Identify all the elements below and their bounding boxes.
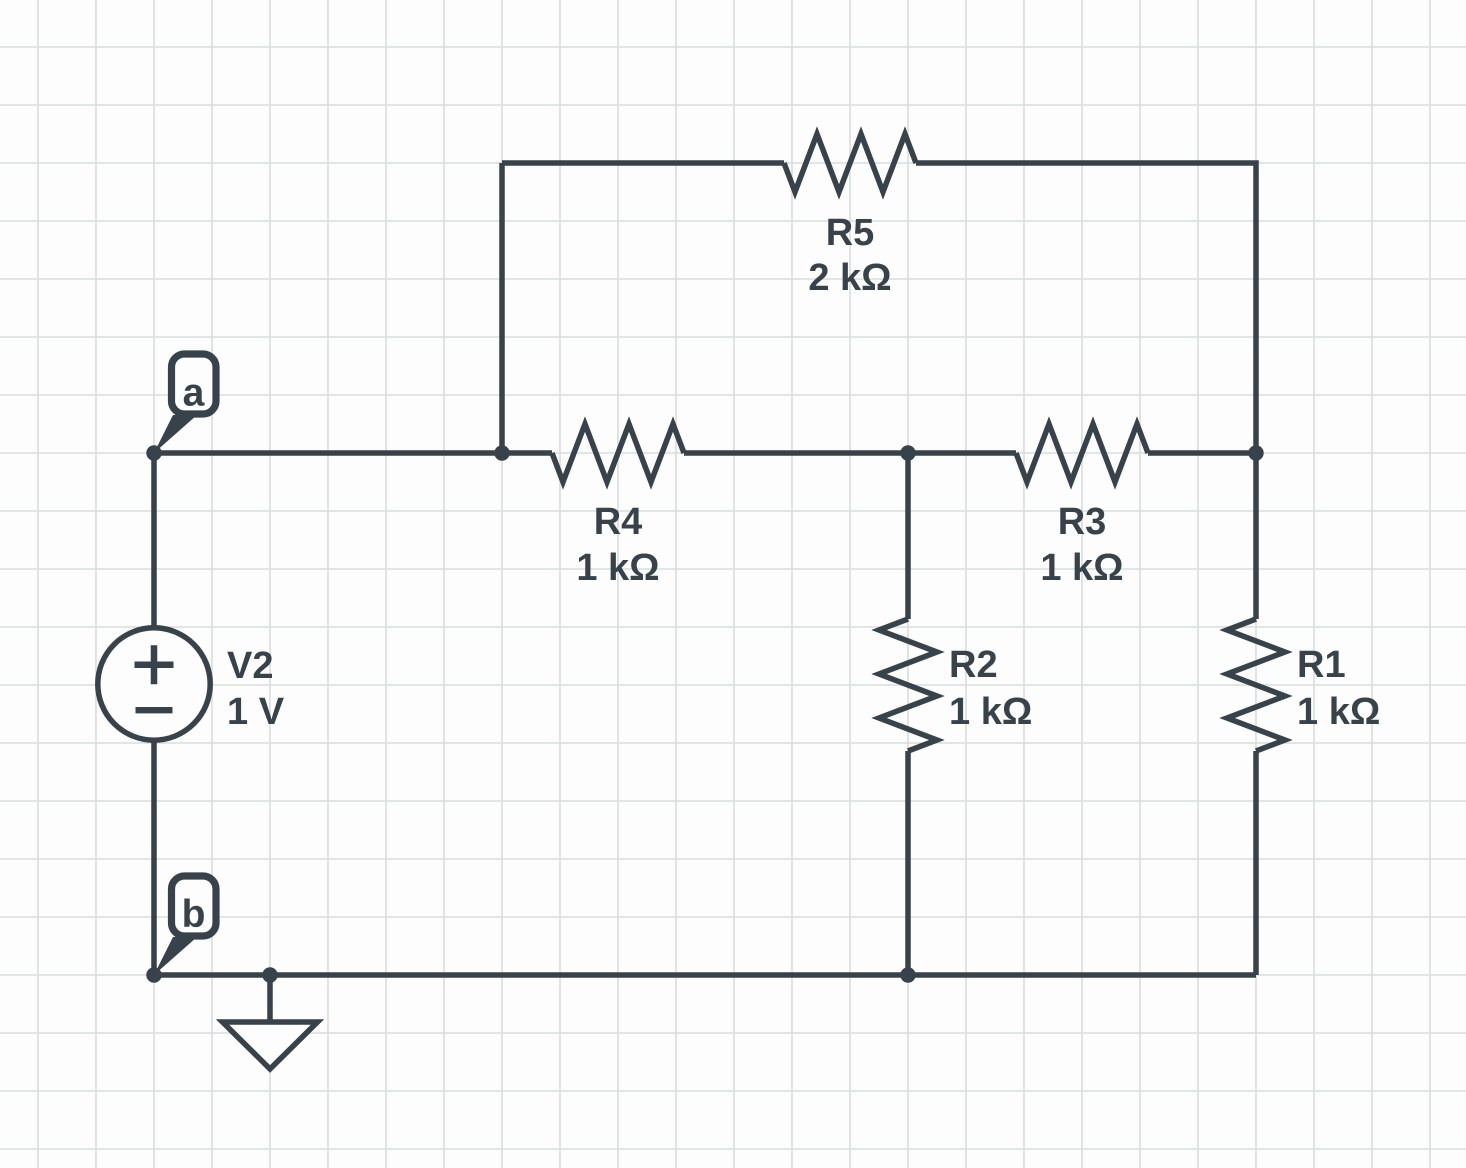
svg-text:2 kΩ: 2 kΩ [808,257,891,299]
svg-text:a: a [183,372,205,415]
wire: R3 right terminal to right junction [1148,450,1256,456]
wire: R2 lower lead [905,751,911,975]
wire: bottom rail node b to bottom-right corner [154,972,1256,978]
resistor R3 [1016,424,1148,482]
wire: R4 right terminal to middle junction [684,450,908,456]
junction: node b [146,967,161,982]
wire: node a to R4 left terminal [154,450,552,456]
svg-text:R3: R3 [1058,501,1107,543]
svg-text:R2: R2 [949,644,998,686]
resistor R5 [784,134,916,192]
junction: R2 bottom [900,967,915,982]
svg-text:R5: R5 [826,212,875,254]
svg-text:V2: V2 [227,645,273,687]
svg-text:R4: R4 [594,501,643,543]
resistor R1 [1227,619,1285,751]
svg-text:1 kΩ: 1 kΩ [576,547,659,589]
junction: top branch tap [494,445,509,460]
svg-text:1 kΩ: 1 kΩ [1297,691,1380,733]
wire: top branch left vertical (junction up) [499,163,505,453]
voltage source V2 [98,628,210,740]
wire: R1 lower lead [1253,751,1259,975]
svg-text:1 kΩ: 1 kΩ [1040,547,1123,589]
wire: top branch left horizontal to R5 [502,160,784,166]
svg-text:1 kΩ: 1 kΩ [949,691,1032,733]
node label a [154,354,216,453]
wire: middle junction to R3 left terminal [908,450,1016,456]
svg-text:R1: R1 [1297,644,1346,686]
wire: R2 upper lead [905,453,911,619]
resistor R2 [879,619,937,751]
node label b [154,876,216,975]
junction: node a [146,445,161,460]
junction: ground tap [262,967,277,982]
wire: node a down to V2 plus terminal [151,453,157,628]
wire: R5 right terminal to top-right corner and down [916,163,1256,453]
svg-text:b: b [182,893,206,936]
svg-text:1 V: 1 V [227,691,285,733]
resistor R4 [552,424,684,482]
junction: right (R1 top) [1248,445,1263,460]
wire: R1 upper lead [1253,453,1259,619]
wire: V2 minus terminal down to node b [151,740,157,975]
ground symbol [223,975,318,1069]
junction: middle (R2 top) [900,445,915,460]
